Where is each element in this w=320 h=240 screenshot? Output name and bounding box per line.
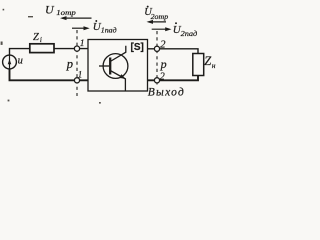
label U2otr [144,6,168,21]
node 2' (bottom) [154,78,159,83]
svg-text:u: u [18,55,23,66]
two-port box [88,40,148,92]
arrow U1pad (incident, points right) [72,26,90,30]
voltage source u [3,55,17,69]
wire bottom-left from source to box [10,69,89,80]
load resistor Zn [193,54,204,76]
pin label 2 bottom [160,71,165,82]
stray scan marks [1,9,101,104]
label Zn [204,54,216,70]
arrow U2pad (incident, points right) [152,27,172,31]
svg-text:p: p [160,57,167,71]
svg-text:1отр: 1отр [56,8,76,17]
svg-text:Z: Z [33,32,39,43]
port plane P2 dashed line [156,31,158,85]
label [S] [131,42,144,53]
label U2pad [173,22,198,38]
svg-text:2пад: 2пад [181,29,198,38]
label Vyhod (output) [148,87,184,99]
svg-text:2отр: 2отр [151,12,169,21]
arrow U1otr (reflected, points left) [60,16,92,20]
port plane P1 dashed line [76,30,78,96]
port label P right [160,57,167,71]
node 1 (top) [74,46,79,51]
arrow U2otr (reflected, points left) [147,20,167,24]
node 1' (bottom) [74,78,79,83]
label U1pad [93,20,117,35]
paper background [0,0,217,123]
svg-text:p: p [66,57,73,71]
resistor Zi [30,44,54,53]
wire top-left from source to Zi [10,49,30,56]
svg-text:U: U [45,3,55,17]
pin label 1 bottom [78,70,83,80]
wire box to node 2 to load corner [148,49,199,54]
svg-text:1: 1 [80,39,85,49]
svg-text:i: i [40,36,42,44]
pin label 2 top [160,40,166,51]
svg-text:[S]: [S] [131,42,144,53]
port label P left [66,57,73,71]
label Zi [33,32,42,44]
svg-text:2: 2 [160,71,165,82]
transistor Q [99,46,128,91]
wire Zi to node 1 to box [54,48,88,50]
node 2 (top) [154,46,159,51]
svg-text:1пад: 1пад [101,26,117,35]
source label u [18,55,23,66]
svg-text:Выход: Выход [148,87,184,99]
svg-text:2: 2 [160,40,166,51]
wire bottom-right from box to load [148,76,199,81]
svg-text:1: 1 [78,70,83,80]
svg-text:н: н [212,61,216,70]
label U1otr [45,3,76,17]
pin label 1 top [80,39,85,49]
